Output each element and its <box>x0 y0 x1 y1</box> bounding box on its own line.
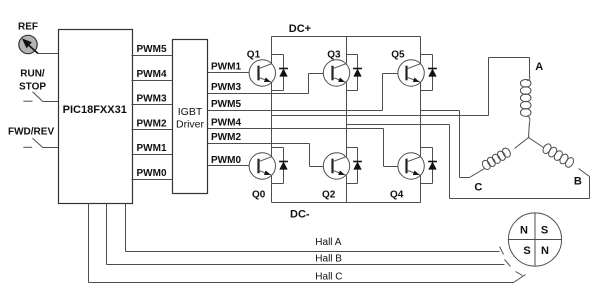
svg-text:PWM1: PWM1 <box>137 143 167 154</box>
hall sensor A tick <box>500 247 504 255</box>
svg-text:Q4: Q4 <box>390 190 404 201</box>
svg-text:PWM1: PWM1 <box>211 62 241 73</box>
wire REF to PIC <box>38 53 59 55</box>
transistor Q2 <box>323 153 349 179</box>
transistor Q5 <box>398 60 424 86</box>
switch RUN/STOP <box>23 92 42 101</box>
wire Hall A sensor line <box>125 204 127 252</box>
DC+ rail <box>272 36 421 38</box>
wire DC+ to Q5 collector <box>420 37 422 64</box>
switch FWD/REV <box>23 138 42 147</box>
svg-text:PWM2: PWM2 <box>137 119 167 130</box>
svg-text:DC+: DC+ <box>289 23 311 35</box>
svg-text:Hall B: Hall B <box>315 254 342 265</box>
wire PWM0 driver to Q0 base <box>208 165 250 167</box>
wire phase node column 2 <box>346 83 348 157</box>
diode D4 freewheel <box>421 147 433 149</box>
wire FWD/REV to PIC <box>43 147 59 149</box>
svg-text:N: N <box>520 225 528 237</box>
transistor Q0 <box>249 153 275 179</box>
rotor magnet <box>508 213 561 266</box>
svg-text:C: C <box>474 182 482 194</box>
svg-text:Hall A: Hall A <box>315 237 341 248</box>
svg-text:RUN/: RUN/ <box>20 69 45 80</box>
svg-text:PWM5: PWM5 <box>137 44 167 55</box>
svg-text:PWM0: PWM0 <box>137 168 167 179</box>
svg-text:PWM3: PWM3 <box>211 82 241 93</box>
wire PWM2 driver to Q2 base <box>208 143 310 145</box>
wire PWM3 driver to Q3 base <box>208 93 309 95</box>
potentiometer REF <box>19 35 38 53</box>
wire DC+ to Q3 collector <box>346 37 348 64</box>
inductor winding A <box>527 77 530 81</box>
wire PWM4 driver to Q4 base <box>208 128 384 130</box>
wire Q2 emitter to DC- <box>346 176 348 203</box>
diode D5 freewheel <box>421 54 433 56</box>
transistor Q3 <box>323 60 349 86</box>
transistor Q4 <box>398 153 424 179</box>
wire Y center to C <box>515 138 529 149</box>
wire PWM1 driver to Q1 base <box>208 72 250 74</box>
diode D0 freewheel <box>272 147 284 149</box>
svg-text:IGBT: IGBT <box>178 106 203 118</box>
wire PWM5 driver to Q5 base <box>208 110 383 112</box>
svg-text:FWD/REV: FWD/REV <box>8 127 54 138</box>
svg-text:B: B <box>574 176 582 188</box>
svg-text:S: S <box>523 245 530 257</box>
wire PWM5 PIC to driver <box>132 55 173 57</box>
hall sensor B tick <box>505 260 511 267</box>
svg-text:Q2: Q2 <box>322 190 336 201</box>
svg-text:PWM4: PWM4 <box>211 118 241 129</box>
wire PWM1 PIC to driver <box>132 154 173 156</box>
svg-text:S: S <box>541 225 548 237</box>
wire phase node column 3 <box>420 83 422 157</box>
svg-text:PIC18FXX31: PIC18FXX31 <box>63 104 127 116</box>
wire phase C <box>421 110 460 112</box>
wire Q4 emitter to DC- <box>420 176 422 203</box>
svg-text:PWM3: PWM3 <box>137 94 167 105</box>
wire Hall C sensor line <box>88 204 90 283</box>
svg-text:PWM2: PWM2 <box>211 132 241 143</box>
IGBT driver U2 <box>173 40 208 194</box>
diode D3 freewheel <box>347 54 358 56</box>
svg-text:Q5: Q5 <box>391 50 405 61</box>
wire Hall B sensor line <box>106 204 108 265</box>
diode D1 freewheel <box>272 54 284 56</box>
wire Q0 emitter to DC- <box>271 176 273 203</box>
wire PWM4 PIC to driver <box>132 80 173 82</box>
svg-text:PWM0: PWM0 <box>211 155 241 166</box>
svg-text:STOP: STOP <box>19 82 46 93</box>
svg-text:PWM4: PWM4 <box>137 69 167 80</box>
DC- rail <box>272 202 421 204</box>
wire phase A <box>272 115 489 117</box>
svg-text:PWM5: PWM5 <box>211 99 241 110</box>
microcontroller PIC18FXX31 <box>59 30 133 204</box>
wire phase node column 1 <box>271 83 273 157</box>
wire DC+ to Q1 collector <box>271 37 273 64</box>
wire RUN/STOP to PIC <box>43 101 59 103</box>
wire Y center to B <box>529 138 544 148</box>
wire PWM0 PIC to driver <box>132 179 173 181</box>
wire Y center to A <box>529 122 530 138</box>
svg-text:Q1: Q1 <box>247 50 261 61</box>
wire PWM2 PIC to driver <box>132 129 173 131</box>
svg-text:REF: REF <box>18 22 38 33</box>
transistor Q1 <box>249 60 275 86</box>
svg-text:A: A <box>535 61 543 73</box>
svg-text:N: N <box>541 245 549 257</box>
svg-text:Hall C: Hall C <box>315 272 342 283</box>
svg-text:Driver: Driver <box>176 118 205 130</box>
svg-text:DC-: DC- <box>290 209 310 221</box>
svg-text:Q0: Q0 <box>252 190 266 201</box>
hall sensor C tick <box>516 272 523 276</box>
diode D2 freewheel <box>347 147 358 149</box>
svg-text:Q3: Q3 <box>327 50 341 61</box>
inductor winding C <box>481 147 512 171</box>
wire phase B <box>347 124 450 126</box>
wire PWM3 PIC to driver <box>132 104 173 106</box>
inductor winding B <box>541 142 575 168</box>
